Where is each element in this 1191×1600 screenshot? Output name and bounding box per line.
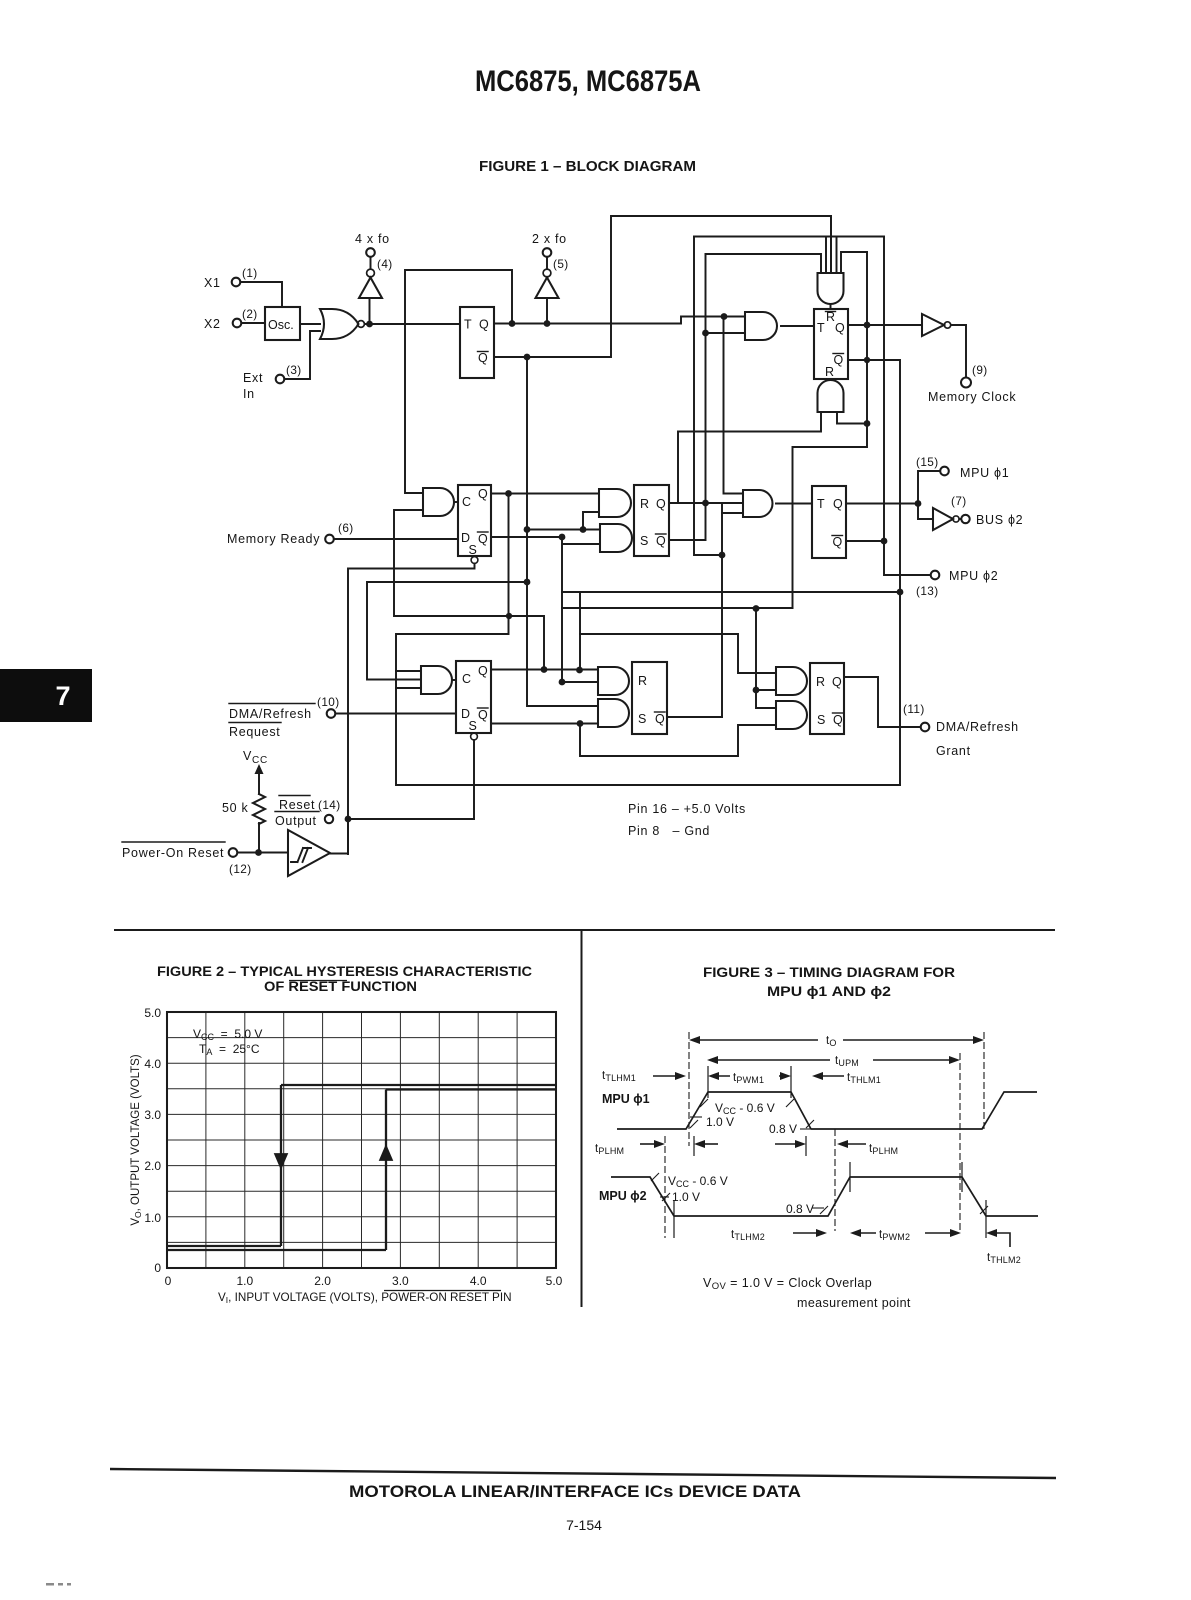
node 580/724 — [577, 720, 584, 727]
wire to BUS phi2 inverter — [918, 504, 933, 520]
hysteresis curve — [167, 1085, 556, 1250]
svg-text:FIGURE 1 – BLOCK DIAGRAM: FIGURE 1 – BLOCK DIAGRAM — [479, 159, 696, 175]
wire G8 output to DFF2 C — [453, 679, 456, 681]
AND gate G11 — [776, 667, 807, 695]
wire G2 input d — [841, 252, 867, 273]
node POR junction — [255, 849, 262, 856]
node under buffer (5) — [544, 320, 551, 327]
svg-text:S: S — [640, 534, 649, 548]
node 509/616 — [506, 613, 512, 619]
svg-text:(2): (2) — [242, 307, 258, 321]
RS flip-flop RSFF3 (DMA grant) — [810, 663, 844, 734]
svg-text:2 x fo: 2 x fo — [532, 232, 567, 246]
wire DFF2 Q — [491, 669, 598, 671]
section tab 7 — [0, 669, 92, 722]
svg-text:(5): (5) — [553, 257, 569, 271]
pin Power-On Reset (12) — [122, 842, 252, 876]
node RSFF1 Q bus cross — [702, 500, 709, 507]
AND gate G10 — [598, 699, 629, 727]
svg-text:1.0: 1.0 — [144, 1211, 161, 1225]
note pin16/pin8 — [628, 802, 746, 838]
svg-text:Q: Q — [478, 708, 488, 722]
svg-text:T: T — [817, 497, 825, 511]
wire DFF1 Q — [491, 493, 599, 495]
dimension tTHLM2 — [986, 1229, 1021, 1265]
wire 529 to G6/G7 — [527, 512, 600, 530]
waveform MPU phi1 — [617, 1092, 1037, 1129]
svg-text:(12): (12) — [229, 862, 252, 876]
divider vertical line — [581, 930, 583, 1307]
pin Ext In (3) — [243, 363, 302, 401]
resistor R1 50k — [222, 794, 265, 824]
waveform MPU phi2 — [611, 1177, 1038, 1216]
wire node to buffer (5) — [546, 298, 548, 324]
svg-text:Q: Q — [833, 497, 843, 511]
svg-text:(4): (4) — [377, 257, 393, 271]
node 544/670 — [541, 666, 548, 673]
power VCC — [243, 749, 268, 794]
wire G8 stub c — [396, 687, 421, 689]
dimension tPWM1 — [708, 1066, 791, 1098]
svg-text:OF RESET FUNCTION: OF RESET FUNCTION — [264, 979, 417, 994]
wire horizontal bus 236 — [694, 236, 884, 238]
T flip-flop FF2 (memory clock) — [814, 309, 848, 379]
AND gate G12 — [776, 701, 807, 729]
label 0.8V phi1 — [769, 1122, 810, 1136]
pin MPU phi1 (15) — [916, 455, 1009, 504]
wire FF1 Q output main line — [494, 317, 745, 324]
svg-text:VO, OUTPUT VOLTAGE (VOLTS): VO, OUTPUT VOLTAGE (VOLTS) — [130, 1054, 143, 1225]
pin X2 (2) — [204, 307, 258, 331]
wire X2 to Osc — [242, 322, 266, 324]
svg-text:MPU ϕ1 AND ϕ2: MPU ϕ1 AND ϕ2 — [767, 984, 891, 999]
chart frame — [167, 1012, 556, 1268]
footer rule — [110, 1469, 1056, 1478]
node 562/682 — [559, 679, 566, 686]
ticks phi2 rise/fall — [674, 1162, 986, 1238]
dimension tTHLM1 — [812, 1072, 881, 1085]
svg-text:Q: Q — [478, 532, 488, 546]
svg-text:7-154: 7-154 — [566, 1517, 602, 1533]
AND gate G6 — [599, 489, 631, 517]
svg-text:Q: Q — [656, 534, 666, 548]
svg-text:4.0: 4.0 — [144, 1057, 161, 1071]
node AND G1 branch — [721, 313, 728, 320]
wire schmitt output up — [330, 819, 348, 854]
svg-text:In: In — [243, 387, 255, 401]
AND gate G5 — [743, 490, 773, 517]
wire G4 lower input — [394, 510, 544, 670]
svg-text:Grant: Grant — [936, 744, 971, 758]
node DFF1 Qbar tap — [559, 534, 566, 541]
wire bus 634 to G11 — [580, 634, 776, 673]
label 1.0V phi2 — [660, 1190, 700, 1204]
svg-text:1.0: 1.0 — [236, 1274, 253, 1288]
svg-text:50 k: 50 k — [222, 801, 248, 815]
svg-text:(3): (3) — [286, 363, 302, 377]
svg-text:Pin 16 – +5.0 Volts: Pin 16 – +5.0 Volts — [628, 802, 746, 816]
oscillator Osc. — [265, 307, 300, 340]
svg-text:7: 7 — [55, 681, 70, 711]
note VOV — [703, 1276, 911, 1310]
svg-text:(15): (15) — [916, 455, 939, 469]
svg-text:S: S — [469, 543, 478, 557]
svg-text:X1: X1 — [204, 276, 221, 290]
svg-text:Reset: Reset — [279, 798, 315, 812]
svg-text:C: C — [462, 495, 471, 509]
svg-text:R: R — [816, 675, 825, 689]
svg-text:4 x fo: 4 x fo — [355, 232, 390, 246]
svg-text:5.0: 5.0 — [144, 1006, 161, 1020]
node 900/592 — [897, 589, 904, 596]
AND gate G1 — [745, 312, 777, 340]
wire RSFF1 Q feedback up — [678, 412, 821, 503]
svg-text:Q: Q — [479, 318, 489, 332]
wire G9 lower input — [562, 681, 598, 683]
svg-text:S: S — [638, 712, 647, 726]
AND gate G9 — [598, 667, 629, 695]
wire DMA request to D — [336, 713, 457, 715]
svg-text:Memory Ready: Memory Ready — [227, 532, 320, 546]
svg-text:MPU ϕ2: MPU ϕ2 — [949, 569, 998, 583]
svg-text:Memory Clock: Memory Clock — [928, 390, 1016, 404]
svg-text:R: R — [825, 365, 834, 379]
svg-text:VI, INPUT VOLTAGE (VOLTS), POW: VI, INPUT VOLTAGE (VOLTS), POWER-ON RESE… — [218, 1291, 512, 1305]
svg-text:3.0: 3.0 — [392, 1274, 409, 1288]
node 583/529 — [580, 526, 587, 533]
wire DFF2 Qbar to G10 — [491, 723, 598, 725]
schmitt trigger U6 — [288, 830, 330, 876]
wire FF1 Qbar — [494, 216, 831, 357]
node 756/690 — [753, 687, 760, 694]
svg-text:T: T — [817, 321, 825, 335]
wire FF3 Qbar — [846, 540, 884, 542]
svg-text:MPU ϕ1: MPU ϕ1 — [602, 1092, 650, 1106]
wire X1 to Osc — [241, 282, 283, 307]
OR gate U1 — [320, 309, 359, 339]
svg-text:FIGURE 2 – TYPICAL HYSTERESIS: FIGURE 2 – TYPICAL HYSTERESIS CHARACTERI… — [157, 964, 532, 979]
wire RSFF1 Qbar to bus — [669, 254, 706, 540]
svg-text:(6): (6) — [338, 521, 354, 535]
inverter U5 (BUS phi2) — [933, 508, 961, 530]
wire vertical bus 694 — [694, 237, 722, 556]
node FF1 Qbar tap — [524, 354, 531, 361]
svg-text:C: C — [462, 672, 471, 686]
wire G2 input c — [830, 216, 832, 273]
wire POR to schmitt — [238, 852, 289, 854]
svg-text:Q: Q — [833, 713, 843, 727]
svg-text:Q: Q — [832, 675, 842, 689]
wire G2 input b — [825, 237, 827, 274]
node at 4xfo tap — [366, 321, 373, 328]
label 0.8V phi2 — [786, 1202, 988, 1216]
wire Memory Ready to D — [334, 538, 458, 540]
svg-text:0.8 V: 0.8 V — [786, 1202, 814, 1216]
node FF1 Q feedback tap — [509, 320, 516, 327]
RS flip-flop RSFF2 — [632, 662, 667, 734]
wire vertical 884 to MPU phi2 — [884, 237, 931, 575]
node G1 lower input — [702, 330, 709, 337]
dimension tTLHM2 — [731, 1229, 827, 1242]
wire G8 stub a — [396, 670, 421, 672]
svg-text:Ext: Ext — [243, 371, 263, 385]
D flip-flop DFF1 (memory ready) — [458, 485, 491, 563]
svg-text:0.8 V: 0.8 V — [769, 1122, 797, 1136]
dimension tPLHM left — [595, 1136, 665, 1238]
svg-text:X2: X2 — [204, 317, 221, 331]
svg-text:1.0 V: 1.0 V — [672, 1190, 700, 1204]
dimension tTLHM1 — [602, 1070, 686, 1083]
node FF2 Q tap — [864, 322, 871, 329]
wire G1 output to FF2 T input — [781, 325, 814, 327]
node 580/670 — [576, 667, 583, 674]
wire G2 output to FF2 — [830, 304, 832, 309]
node MPU phi1 tap — [915, 500, 922, 507]
pin Reset Output (14) — [275, 796, 341, 829]
svg-text:(1): (1) — [242, 266, 258, 280]
svg-text:DMA/Refresh: DMA/Refresh — [229, 707, 312, 721]
chart grid — [167, 1012, 556, 1268]
svg-text:BUS ϕ2: BUS ϕ2 — [976, 513, 1023, 527]
wire RSFF1 Q output to G5 — [669, 502, 743, 504]
svg-text:MPU ϕ1: MPU ϕ1 — [960, 466, 1009, 480]
svg-text:(7): (7) — [951, 494, 967, 508]
svg-text:1.0 V: 1.0 V — [706, 1115, 734, 1129]
svg-text:S: S — [817, 713, 826, 727]
wire G4 output to DFF1 C — [455, 501, 458, 503]
wire Ext In to OR gate — [285, 331, 321, 379]
wire node to buffer (4) — [369, 298, 371, 324]
pin DMA/Refresh Grant (11) — [903, 702, 1019, 758]
wire FF2 Q to inverter — [848, 324, 921, 326]
svg-text:S: S — [469, 719, 478, 733]
node FF3 Qbar tap — [881, 538, 888, 545]
wire DFF1 Qbar — [491, 537, 600, 682]
svg-text:R: R — [640, 497, 649, 511]
arrow down on falling branch — [275, 1139, 287, 1168]
dimension tO — [689, 1032, 984, 1146]
dimension tPLHM right — [835, 1129, 898, 1231]
svg-text:(11): (11) — [903, 702, 925, 716]
svg-text:(10): (10) — [317, 695, 340, 709]
svg-text:0: 0 — [154, 1261, 161, 1275]
svg-text:Q: Q — [834, 353, 844, 367]
svg-text:(13): (13) — [916, 584, 939, 598]
T flip-flop FF3 (MPU phases) — [812, 486, 846, 558]
wire 756 down to G11/G12 — [756, 609, 776, 709]
pin MPU phi2 (13) — [916, 569, 998, 598]
wire G2 input e — [836, 237, 838, 274]
pin Memory Ready (6) — [227, 521, 354, 546]
svg-text:Q: Q — [656, 497, 666, 511]
svg-text:Q: Q — [655, 712, 665, 726]
arrow up on rising branch — [380, 1146, 392, 1172]
svg-text:(9): (9) — [972, 363, 988, 377]
node bus join 722/555 — [719, 552, 726, 559]
svg-text:2.0: 2.0 — [314, 1274, 331, 1288]
node reset output junction — [345, 816, 352, 823]
wire reset output line — [348, 818, 474, 820]
chart y labels — [144, 1006, 161, 1275]
svg-text:5.0: 5.0 — [546, 1274, 563, 1288]
mid arrows at 1147 — [694, 1136, 806, 1156]
svg-text:VOV = 1.0 V = Clock Overlap: VOV = 1.0 V = Clock Overlap — [703, 1276, 872, 1292]
pin Memory Clock (9) — [928, 363, 1016, 404]
wire 582 bus — [367, 582, 527, 680]
svg-text:4.0: 4.0 — [470, 1274, 487, 1288]
inverter U4 (memory clock) — [922, 314, 951, 336]
node DFF1 Q tap — [505, 490, 512, 497]
node Qbar 867 cross — [864, 357, 870, 363]
wire G5 output to FF3 — [776, 503, 812, 505]
svg-text:T: T — [464, 318, 472, 332]
wire FF3 Q output — [846, 503, 918, 505]
svg-text:Pin 8 – Gnd: Pin 8 – Gnd — [628, 824, 710, 838]
svg-text:Q: Q — [833, 535, 843, 549]
svg-text:Q: Q — [478, 351, 488, 365]
dimension tUPM — [707, 1053, 960, 1231]
scan specks — [46, 1583, 71, 1586]
dimension tPWM2 — [850, 1229, 961, 1242]
svg-text:Q: Q — [835, 321, 845, 335]
AND gate G7 — [600, 524, 632, 552]
svg-text:measurement point: measurement point — [797, 1296, 911, 1310]
RS flip-flop RSFF1 — [634, 485, 669, 556]
label VCC-0.6V phi1 — [700, 1099, 794, 1116]
svg-text:MC6875, MC6875A: MC6875, MC6875A — [475, 65, 701, 98]
node 527/582 — [524, 579, 531, 586]
wire bus 592 — [562, 591, 900, 593]
svg-text:DMA/Refresh: DMA/Refresh — [936, 720, 1019, 734]
AND gate G3 (reset bottom) — [818, 380, 844, 412]
wire DFF1 S to reset line — [348, 564, 475, 855]
T flip-flop FF1 — [460, 307, 494, 378]
svg-text:3.0: 3.0 — [144, 1108, 161, 1122]
wire G5 lower stub — [722, 512, 743, 514]
OR output bubble — [358, 321, 365, 328]
svg-text:Output: Output — [275, 814, 317, 828]
node G3 output join — [864, 420, 871, 427]
node 527/529 — [524, 526, 531, 533]
svg-text:R: R — [638, 674, 647, 688]
wire RSFF2 Qbar up bus 722 — [667, 716, 722, 718]
wire DFF2 S to reset line — [473, 740, 475, 819]
pin DMA/Refresh Request (10) — [229, 695, 340, 739]
label 1.0V phi1 — [690, 1115, 814, 1129]
wire bus 722 — [722, 317, 743, 718]
svg-text:MPU ϕ2: MPU ϕ2 — [599, 1189, 647, 1203]
label VCC-0.6V phi2 — [651, 1173, 728, 1189]
svg-text:Q: Q — [478, 487, 488, 501]
pin BUS phi2 (7) — [951, 494, 1023, 527]
AND gate G2 (reset top) — [818, 273, 844, 304]
svg-text:0: 0 — [165, 1274, 172, 1288]
wire vertical 580 — [579, 592, 581, 670]
svg-text:2.0: 2.0 — [144, 1159, 161, 1173]
wire G3 output — [837, 412, 867, 424]
wire bus 608 — [562, 607, 793, 609]
wire Qbar RS-FF1 bus to G1 lower input — [706, 332, 746, 334]
wire Osc to OR gate — [300, 323, 320, 325]
svg-text:Request: Request — [229, 725, 280, 739]
wire Qbar vertical bus — [527, 357, 598, 706]
svg-text:Q: Q — [478, 664, 488, 678]
buffer U3 (2x fo) — [532, 232, 569, 298]
wire G2 input a — [706, 254, 822, 273]
wire DFF1 Q feedback down — [396, 494, 900, 786]
svg-text:(14): (14) — [318, 798, 341, 812]
svg-text:Osc.: Osc. — [268, 318, 294, 332]
wire inverter to pin 9 — [951, 325, 966, 377]
AND gate G8 — [421, 666, 452, 694]
wire feedback to AND G4 — [405, 270, 512, 493]
chart x labels — [165, 1274, 563, 1288]
svg-text:FIGURE 3 – TIMING DIAGRAM FOR: FIGURE 3 – TIMING DIAGRAM FOR — [703, 965, 955, 980]
svg-text:Power-On Reset: Power-On Reset — [122, 846, 224, 860]
node 756/608 — [753, 605, 760, 612]
wire RSFF3 Q to pin 11 — [844, 677, 921, 727]
AND gate G4 (memory ready clock) — [423, 488, 454, 516]
svg-text:MOTOROLA LINEAR/INTERFACE ICs: MOTOROLA LINEAR/INTERFACE ICs DEVICE DAT… — [349, 1483, 801, 1501]
wire 580 down to G12 — [580, 724, 776, 757]
buffer U2 (4x fo) — [355, 232, 393, 298]
wire resistor to POR line — [258, 823, 260, 853]
wire OR to T flip-flop FF1 — [365, 323, 461, 325]
wire FF2 Qbar — [848, 360, 900, 785]
D flip-flop DFF2 (DMA request) — [456, 661, 491, 740]
wire vertical 867 — [793, 252, 868, 608]
pin X1 (1) — [204, 266, 258, 290]
divider top line — [114, 929, 1055, 931]
